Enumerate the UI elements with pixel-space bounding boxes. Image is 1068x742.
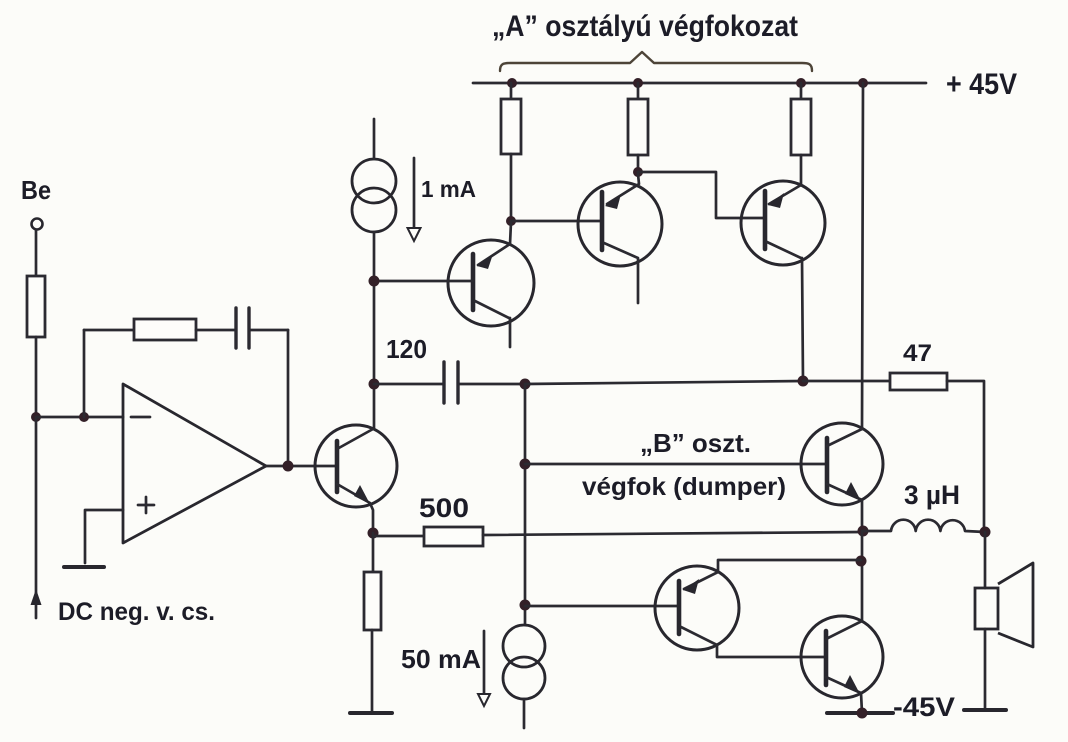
transistor Q2 emitter arrow bbox=[477, 254, 493, 269]
transistor Q7 emitter lead bbox=[826, 677, 862, 713]
transistor Q5 emitter lead bbox=[827, 484, 862, 532]
wire R5 to node I bbox=[35, 337, 38, 417]
node F (R2 / Q3 emitter / Q4 base wire) bbox=[633, 167, 643, 177]
ground under Q7 bbox=[827, 711, 893, 715]
svg-text:„B” oszt.: „B” oszt. bbox=[640, 428, 751, 458]
transistor Q5 emitter arrow bbox=[845, 482, 861, 501]
current source CS2 upper circle bbox=[503, 625, 545, 667]
wire node H to R7 bbox=[803, 380, 890, 383]
capacitor C2 plate left bbox=[442, 362, 445, 403]
resistor R1 bbox=[501, 99, 521, 154]
wire node F to Q4 base bbox=[638, 172, 765, 218]
resistor R8 (500) bbox=[424, 527, 483, 546]
resistor R6 (feedback) bbox=[134, 319, 196, 340]
transistor Q2 circle bbox=[448, 240, 534, 326]
node R (inductor right node) bbox=[980, 527, 991, 538]
wire R1 top stub bbox=[510, 83, 513, 99]
node N (C2 right junction) bbox=[520, 379, 531, 390]
wire R9 to ground bbox=[371, 630, 374, 712]
op-amp U1 plus sign bbox=[138, 497, 154, 513]
wire feedback output riser bbox=[287, 330, 290, 466]
svg-text:„A” osztályú végfokozat: „A” osztályú végfokozat bbox=[492, 10, 798, 43]
transistor Q6 base bar bbox=[677, 581, 682, 634]
svg-text:+ 45V: + 45V bbox=[946, 68, 1017, 101]
wire Q2 base wire from node G bbox=[374, 280, 473, 283]
svg-text:120: 120 bbox=[386, 334, 427, 364]
wire DC feedback up-arrow bbox=[31, 589, 42, 605]
transistor Q6 emitter arrow bbox=[683, 579, 699, 594]
op-amp U1 minus sign bbox=[131, 416, 150, 419]
wire 1mA arrowhead bbox=[408, 228, 421, 241]
transistor Q2 emitter lead (to node E, arrow into base) bbox=[478, 222, 511, 265]
node E (R1 / Q2 collector / Q3 base) bbox=[506, 216, 516, 226]
wire feedback to R6 bbox=[84, 329, 134, 332]
transistor Q7 emitter arrow bbox=[844, 675, 860, 694]
wire inverting input bbox=[36, 416, 123, 419]
transistor Q6 collector lead to Q7 base bbox=[681, 627, 826, 657]
transistor Q1 base bar bbox=[335, 441, 340, 492]
node Be input terminal bbox=[32, 219, 43, 230]
transistor Q4 emitter arrow bbox=[768, 193, 784, 208]
resistor R9 bbox=[364, 572, 381, 630]
node I (input node) bbox=[31, 412, 41, 422]
node rail junction A bbox=[507, 78, 517, 88]
op-amp U1 triangle bbox=[123, 384, 266, 543]
wire R3 top stub bbox=[800, 83, 803, 99]
capacitor C1 plate left bbox=[234, 308, 237, 348]
current source CS1 lower circle bbox=[352, 188, 396, 232]
wire CS1 top stub bbox=[373, 119, 376, 159]
wire CS2 bottom stub bbox=[523, 699, 526, 728]
wire C1 to output riser bbox=[249, 329, 288, 332]
wire node R to speaker bbox=[984, 532, 987, 588]
wire DC feedback line down bbox=[35, 417, 38, 618]
wire Q6 base wire bbox=[525, 605, 679, 608]
svg-text:végfok (dumper): végfok (dumper) bbox=[582, 473, 786, 501]
wire R7 to right drop bbox=[947, 381, 984, 532]
resistor R3 bbox=[791, 99, 811, 155]
node rail junction C bbox=[796, 78, 806, 88]
svg-text:Be: Be bbox=[21, 175, 51, 205]
ground under R9 bbox=[350, 711, 392, 715]
wire speaker to ground bbox=[984, 629, 987, 709]
transistor Q1 emitter lead bbox=[337, 484, 373, 533]
wire R2 bottom to node F bbox=[637, 155, 640, 174]
wire non-inverting input bbox=[85, 510, 123, 563]
wire node N to node H bbox=[525, 381, 803, 384]
wire node E to Q3 base bbox=[511, 220, 602, 223]
wire CS1 bottom / Q1 collector riser bbox=[373, 232, 376, 429]
wire 50mA arrow line bbox=[483, 631, 486, 694]
resistor R7 (47) bbox=[890, 373, 947, 390]
capacitor C1 plate right bbox=[247, 308, 250, 348]
node T (Q6 base tap) bbox=[520, 600, 531, 611]
node L (C2 tap) bbox=[369, 379, 380, 390]
svg-text:47: 47 bbox=[903, 340, 932, 367]
wire R3 bottom to Q4 emitter bbox=[800, 155, 803, 185]
svg-text:1 mA: 1 mA bbox=[421, 176, 476, 202]
wire C2 to node N bbox=[458, 383, 525, 386]
node P (inductor left node) bbox=[858, 526, 869, 537]
current source CS1 upper circle bbox=[352, 159, 396, 203]
wire R6 to C1 bbox=[196, 329, 236, 332]
svg-text:-45V: -45V bbox=[893, 692, 955, 722]
svg-text:500: 500 bbox=[419, 493, 469, 523]
ground under speaker bbox=[964, 708, 1006, 712]
transistor Q1 collector lead bbox=[337, 429, 373, 449]
node M (Q1 emitter node) bbox=[368, 528, 379, 539]
transistor Q4 emitter lead (arrow into base) bbox=[769, 185, 801, 204]
node rail junction B bbox=[633, 78, 643, 88]
wire 500 line from Q1 emitter bbox=[373, 535, 424, 538]
transistor Q7 circle bbox=[801, 616, 883, 698]
wire Q5 base wire bbox=[525, 463, 827, 466]
wire R2 top stub bbox=[637, 83, 640, 99]
node G (Q2 base tap) bbox=[369, 276, 380, 287]
transistor Q1 emitter arrow bbox=[354, 485, 370, 504]
speaker LS1 box bbox=[975, 588, 998, 629]
wire +45V supply rail bbox=[473, 82, 926, 85]
transistor Q4 collector lead down to node H bbox=[767, 242, 803, 381]
transistor Q5 circle bbox=[801, 423, 883, 505]
transistor Q3 emitter lead (arrow into base) bbox=[607, 174, 639, 204]
wire Q1 emitter to R9 bbox=[372, 533, 375, 572]
transistor Q3 circle bbox=[578, 182, 662, 266]
speaker LS1 horn bbox=[998, 563, 1033, 647]
resistor R5 (input) bbox=[27, 276, 45, 337]
node U (Q7 emitter ground node) bbox=[857, 708, 868, 719]
node H (Q4 collector junction) bbox=[798, 376, 809, 387]
wire node L to C2 bbox=[374, 383, 444, 386]
transistor Q3 emitter arrow bbox=[605, 194, 621, 209]
transistor Q3 base bar bbox=[600, 192, 605, 250]
transistor Q5 collector lead bbox=[827, 429, 862, 446]
wire R1 bottom to node E bbox=[510, 154, 513, 222]
transistor Q7 base bar bbox=[824, 631, 829, 685]
capacitor C2 plate right bbox=[456, 362, 459, 403]
node rail junction D bbox=[858, 78, 868, 88]
brace over class-A stage bbox=[500, 52, 812, 71]
transistor Q2 collector lead stub bbox=[475, 301, 510, 347]
wire 1mA arrow line bbox=[413, 158, 416, 228]
wire node P down to node S bbox=[861, 531, 864, 621]
transistor Q4 circle bbox=[741, 181, 825, 265]
transistor Q5 base bar bbox=[825, 438, 830, 492]
node K (output / feedback junction) bbox=[283, 461, 294, 472]
wire op-amp output to Q1 base bbox=[266, 465, 337, 468]
transistor Q7 collector lead bbox=[826, 621, 862, 639]
wire R8 to node P bbox=[483, 532, 862, 535]
wire 50mA arrowhead bbox=[478, 694, 490, 706]
transistor Q3 collector lead stub bbox=[604, 243, 638, 303]
node J (feedback tap) bbox=[79, 412, 89, 422]
transistor Q6 emitter lead (arrow into base) bbox=[684, 560, 861, 589]
node Q (Q5 base tap) bbox=[520, 459, 531, 470]
transistor Q2 base bar bbox=[471, 254, 476, 310]
svg-text:3 µH: 3 µH bbox=[904, 480, 960, 510]
current source CS2 lower circle bbox=[503, 657, 545, 699]
svg-text:50 mA: 50 mA bbox=[401, 644, 481, 674]
transistor Q4 base bar bbox=[763, 191, 768, 249]
node S (Q6 collector tap) bbox=[856, 556, 867, 567]
wire feedback riser bbox=[83, 330, 86, 417]
wire right vertical from rail to Q5 collector bbox=[862, 83, 863, 429]
transistor Q1 circle bbox=[315, 425, 397, 507]
wire Be terminal to R5 bbox=[35, 230, 38, 276]
wire mid riser node N down to CS2 bbox=[524, 384, 527, 625]
svg-text:DC neg. v. cs.: DC neg. v. cs. bbox=[58, 598, 215, 626]
ground op-amp plus input bbox=[64, 565, 104, 569]
inductor L1 bbox=[863, 520, 985, 532]
resistor R2 bbox=[628, 99, 648, 155]
transistor Q6 circle bbox=[655, 566, 739, 650]
